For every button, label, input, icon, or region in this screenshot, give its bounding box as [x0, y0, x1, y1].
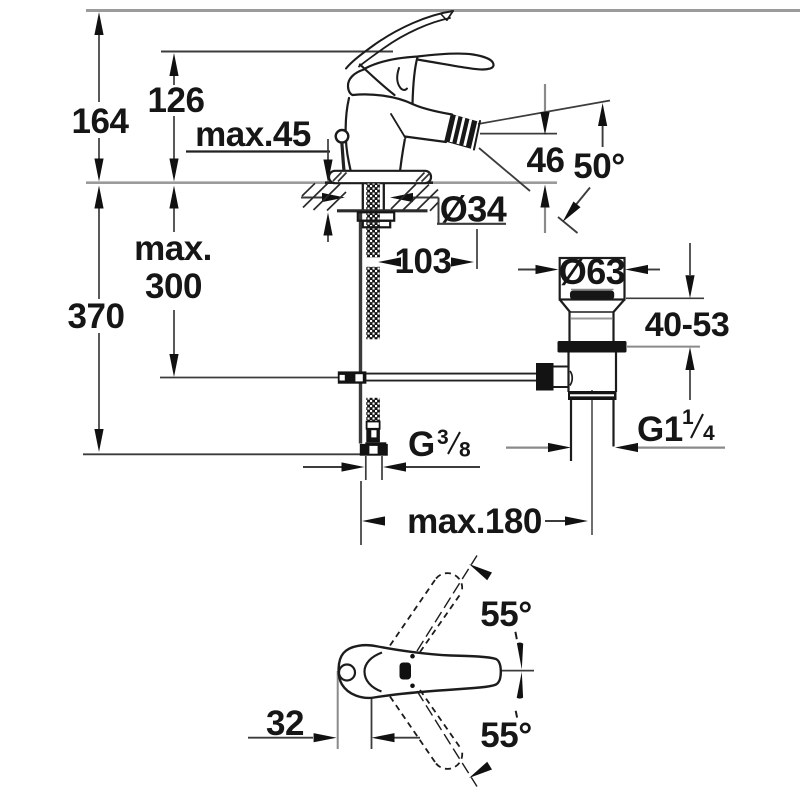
svg-text:max.: max.	[134, 229, 212, 268]
svg-text:32: 32	[266, 704, 304, 743]
svg-text:G: G	[408, 425, 435, 464]
svg-text:Ø34: Ø34	[440, 189, 507, 230]
svg-text:300: 300	[145, 267, 202, 306]
svg-text:max.180: max.180	[407, 502, 542, 541]
svg-text:370: 370	[68, 297, 125, 336]
svg-text:4: 4	[703, 422, 715, 445]
svg-text:103: 103	[395, 242, 452, 281]
svg-text:8: 8	[459, 439, 471, 462]
svg-text:40-53: 40-53	[645, 306, 729, 344]
svg-text:1: 1	[682, 406, 694, 429]
svg-text:46: 46	[527, 141, 565, 180]
svg-text:3: 3	[437, 426, 448, 449]
svg-text:55°: 55°	[480, 595, 531, 634]
svg-text:G1: G1	[637, 410, 683, 449]
svg-text:max.45: max.45	[195, 115, 311, 154]
svg-text:55°: 55°	[480, 716, 531, 755]
svg-text:50°: 50°	[573, 147, 624, 186]
svg-text:164: 164	[72, 102, 130, 141]
